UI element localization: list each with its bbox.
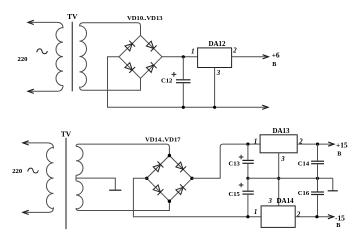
arrow +15 output [328, 142, 334, 146]
label ~ (AC) [37, 49, 48, 54]
wire DA14 output [295, 216, 334, 218]
node C14/C16 mid junction [316, 177, 319, 180]
regulator DA12 box [198, 48, 232, 68]
capacitor C15 lower lead [247, 195, 249, 217]
arrow mains lower-left (bottom) [23, 210, 29, 214]
bridge rectifier VD14..VD17 diamond [147, 156, 192, 202]
svg-text:C16: C16 [298, 190, 310, 197]
arrow mains lower-left [28, 89, 34, 93]
regulator DA13 box [260, 135, 297, 153]
wire DA12 output [232, 56, 269, 58]
node pin3 mid-rail junction [277, 177, 280, 180]
diode VD12 (lower-left arm) [125, 63, 135, 73]
node C13 top junction [246, 143, 249, 146]
diode VD15 (upper-right arm) [176, 162, 186, 172]
svg-text:1: 1 [254, 138, 257, 145]
transformer TV2 primary winding [47, 148, 54, 209]
svg-text:3: 3 [216, 70, 221, 77]
wire DA13 pin3 down through mid rail to DA14 pin3 [278, 153, 280, 206]
diode VD17 (lower-right arm) [176, 184, 186, 194]
capacitor C13 plates [242, 160, 253, 163]
wire primary-top (mains input upper) [28, 22, 63, 28]
svg-text:2: 2 [296, 211, 301, 218]
node bridge2 bottom vertex [168, 200, 171, 203]
ground center tap [109, 189, 121, 191]
wire secondary-bottom to bridge2 AC2 [76, 201, 169, 210]
capacitor C13 lower lead [247, 164, 249, 178]
wire primary-bottom (mains input lower) [28, 85, 63, 91]
svg-text:C13: C13 [229, 160, 241, 167]
capacitor C14 lower lead [317, 164, 319, 178]
transformer TV primary winding [56, 28, 63, 86]
arrow -15 output [328, 215, 334, 219]
ground mid rail [328, 190, 338, 192]
svg-text:DA13: DA13 [272, 127, 290, 135]
diode VD16 (lower-left arm) [153, 185, 163, 195]
wire DA12 pin3 to common [214, 68, 216, 108]
svg-text:+6: +6 [272, 50, 280, 59]
wire bridge2 minus down to DA14 pin1 [133, 178, 261, 216]
svg-text:В: В [272, 61, 276, 68]
diode VD13 (lower-right arm) [146, 62, 156, 72]
wire mid rail to ground [332, 178, 334, 191]
svg-text:VD10..VD13: VD10..VD13 [127, 15, 163, 22]
mid common rail [248, 177, 333, 179]
capacitor C16 plates [311, 192, 324, 195]
node C16 bottom junction [315, 215, 318, 218]
node bridge2 top vertex [168, 154, 171, 157]
capacitor C14 upper lead [317, 144, 319, 161]
label ~ (bottom) [28, 168, 39, 173]
capacitor C14 plates [311, 161, 324, 164]
arrow mains upper-left (bottom) [23, 141, 29, 145]
node bridge2 right vertex [190, 177, 193, 180]
arrow +6 output [263, 55, 269, 59]
svg-text:3: 3 [268, 198, 273, 205]
svg-text:1: 1 [254, 209, 257, 216]
wire secondary-top to bridge AC1 [80, 23, 141, 36]
node C15 bottom junction [246, 215, 249, 218]
svg-text:3: 3 [280, 156, 285, 163]
capacitor C15 plates [242, 191, 253, 194]
capacitor C13 upper lead [247, 144, 249, 160]
transformer TV2 secondary upper half [76, 146, 83, 175]
capacitor C12 plates [176, 80, 191, 83]
regulator DA14 box [261, 206, 295, 228]
C13 plus sign [239, 155, 244, 160]
C12 plus sign [172, 72, 177, 77]
svg-text:C12: C12 [161, 77, 173, 84]
svg-text:C15: C15 [229, 191, 241, 198]
arrow mains upper-left [28, 20, 34, 24]
transformer TV secondary winding [80, 26, 87, 88]
bridge rectifier VD10..VD13 diamond [119, 35, 162, 78]
transformer TV2 secondary lower half [76, 181, 83, 209]
transformer TV core [71, 22, 73, 92]
transformer TV2 core [65, 138, 67, 229]
svg-text:220: 220 [12, 168, 23, 175]
svg-text:VD14..VD17: VD14..VD17 [145, 137, 181, 144]
wire secondary-bottom to bridge AC2 [80, 78, 141, 90]
diode VD11 (upper-right arm) [146, 41, 156, 51]
wire bridge plus to DA12 pin1 [162, 56, 198, 58]
svg-text:220: 220 [18, 56, 29, 63]
svg-text:2: 2 [232, 48, 237, 55]
capacitor C12 upper lead [182, 57, 184, 79]
wire center tap to ground [76, 178, 115, 190]
diode VD10 (upper-left arm) [125, 41, 135, 51]
svg-text:C14: C14 [298, 160, 310, 167]
node pin3 common junction [213, 106, 216, 109]
wire secondary-top to bridge2 AC1 [76, 144, 169, 155]
capacitor C16 lower lead [317, 195, 319, 217]
svg-text:TV: TV [67, 12, 78, 21]
capacitor C15 upper lead [247, 178, 249, 190]
wire primary-bottom mains (bottom circuit) [23, 207, 54, 212]
capacitor C12 lower lead [182, 83, 184, 107]
svg-text:1: 1 [191, 49, 194, 56]
node C12 bottom junction [182, 106, 185, 109]
wire DA13 output [297, 143, 334, 145]
wire primary-top mains (bottom circuit) [23, 143, 54, 149]
wire secondary center joining [75, 175, 77, 181]
svg-text:DA14: DA14 [277, 197, 295, 205]
node C14 top junction [316, 143, 319, 146]
svg-text:DA12: DA12 [208, 40, 226, 48]
svg-text:В: В [337, 151, 341, 158]
node C13 bottom / mid-rail junction [246, 177, 249, 180]
node C12 top junction [182, 55, 185, 58]
capacitor C16 upper lead [317, 178, 319, 191]
svg-text:TV: TV [61, 129, 72, 138]
svg-text:+15: +15 [336, 141, 348, 150]
arrow common rail right [262, 105, 268, 109]
diode VD14 (upper-left arm) [153, 162, 163, 172]
wire bridge2 plus up to DA13 pin1 [192, 144, 260, 178]
node bridge2 left vertex [145, 177, 148, 180]
C15 plus sign [239, 183, 244, 188]
wire minus rail (left vertex down and right) [108, 57, 269, 108]
svg-text:В: В [336, 222, 340, 229]
